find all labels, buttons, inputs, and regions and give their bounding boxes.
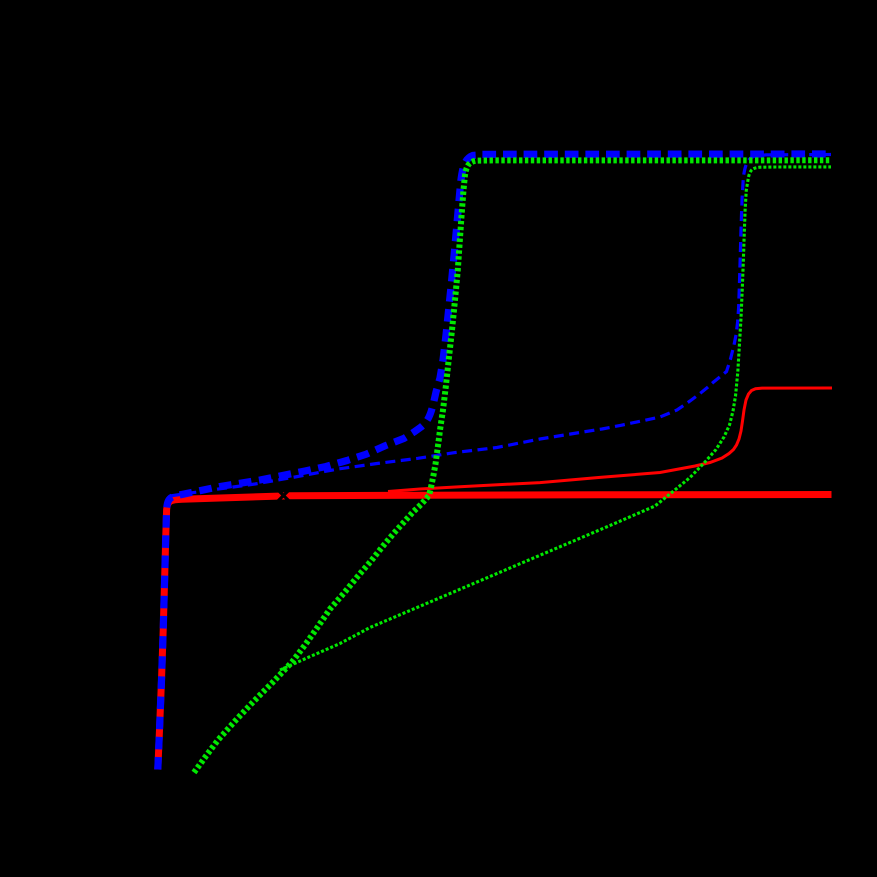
black X data marker on red line — [277, 489, 291, 503]
thin green dotted curve — [280, 167, 831, 670]
thin red solid curve — [388, 388, 832, 492]
thin blue dashed curve — [171, 155, 831, 496]
thick blue dashed curve : rise part — [158, 155, 477, 769]
thick red solid curve — [158, 495, 832, 770]
thick green dotted curve — [194, 160, 831, 772]
thick blue dashed curve : plateau part — [482, 150, 831, 158]
